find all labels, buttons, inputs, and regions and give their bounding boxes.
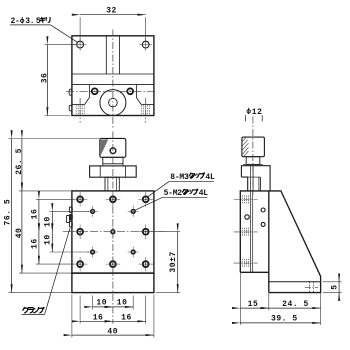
hidden hole in base (side) (305, 282, 318, 292)
svg-text:36: 36 (40, 73, 49, 84)
dimension 40 (bottom) (72, 295, 154, 338)
dimension 10 10 (bottom) (93, 296, 134, 310)
svg-text:5-M2: 5-M2 (164, 189, 183, 198)
hole A (phi3.5 left) (74, 38, 87, 51)
label 8-M3 tap 4L (147, 173, 215, 198)
svg-text:5: 5 (331, 284, 340, 289)
svg-text:15: 15 (248, 300, 259, 309)
dimension 16 upper (left) (30, 199, 74, 231)
M3 tap holes 8x (front) (77, 196, 148, 267)
svg-text:40: 40 (15, 228, 24, 239)
dimension 15 (side) (240, 273, 268, 325)
svg-text:8-M3: 8-M3 (170, 173, 189, 182)
svg-text:16: 16 (30, 209, 39, 220)
centerline vertical main (plan) (112, 30, 114, 128)
svg-text:12: 12 (252, 108, 263, 117)
dimension 24.5 (side) (269, 293, 321, 325)
screw boss (side) (248, 177, 261, 191)
svg-text:30±7: 30±7 (169, 251, 178, 272)
bracket flange (front) (90, 166, 137, 177)
carriage edges (plan) (72, 85, 154, 105)
svg-text:16: 16 (30, 238, 39, 249)
svg-text:40: 40 (107, 328, 118, 337)
screw S1 (plan left) (92, 88, 98, 94)
svg-text:10: 10 (44, 234, 53, 245)
side hole C1 (261, 208, 265, 212)
screw S2 (plan right) (127, 88, 133, 94)
centerline vertical main (front) (112, 132, 114, 324)
svg-text:4L: 4L (205, 173, 215, 182)
label clamp (kurannpu) (22, 228, 71, 314)
stage base (front) (72, 273, 154, 293)
top view internal horizontal edges (72, 74, 154, 85)
side hole C2 (261, 222, 265, 226)
svg-text:26. 5: 26. 5 (15, 148, 24, 175)
svg-text:10: 10 (117, 299, 128, 308)
label 2-phi3.5 drill (10, 17, 77, 42)
label phi12 (245, 108, 262, 122)
svg-text:24. 5: 24. 5 (282, 300, 309, 309)
svg-text:10: 10 (44, 216, 53, 227)
side body outline (240, 191, 320, 293)
svg-text:10: 10 (96, 299, 107, 308)
svg-text:32: 32 (106, 7, 117, 16)
svg-text:4L: 4L (199, 189, 209, 198)
top view central slot (106, 36, 119, 74)
label 5-M2 tap 4L (135, 189, 209, 211)
top view body outline (72, 36, 154, 116)
dimension 5 (side) (323, 276, 342, 298)
bracket flange (side) (241, 166, 270, 192)
tapped hole section row2 (side) (234, 228, 258, 236)
knob neck (front) (103, 157, 123, 164)
dimension 10 upper (left) (44, 211, 89, 231)
micrometer knob (front) (100, 138, 126, 157)
stage body (front) (72, 191, 154, 273)
base plate top (side) (269, 281, 321, 283)
dimension 26.5 (15, 139, 72, 191)
side hole C3 (245, 215, 249, 219)
dimension 76.5 (4, 139, 100, 293)
centerline rail left (plan) (79, 98, 81, 123)
feed screw shaft (front) (105, 177, 119, 191)
svg-text:39. 5: 39. 5 (271, 315, 298, 324)
svg-text:76. 5: 76. 5 (4, 199, 13, 226)
dimension 32 (80, 7, 146, 41)
dovetail joint lines (side) (250, 191, 252, 272)
tapped hole section row1 (side) (234, 195, 258, 203)
dimension 16 lower (left) (30, 232, 74, 264)
M2 hole crosshairs (87, 206, 139, 258)
hole B (phi3.5 right) (139, 38, 152, 51)
dimension 30±7 (right) (151, 232, 181, 293)
clamp bump lower (plan left edge) (69, 105, 72, 111)
dimension 10 lower (left) (44, 232, 89, 252)
centerline rail right (plan) (145, 98, 147, 123)
knob neck (side) (246, 157, 260, 165)
knob knurl (side) (242, 137, 265, 157)
dimension 39.5 (side) (240, 315, 320, 324)
M3 hole crosshairs (73, 192, 153, 271)
dimension 40 (left) (15, 191, 72, 273)
centerline knob axis (side) (252, 117, 254, 196)
knob end circle (plan) (100, 90, 126, 116)
centerline horizontal middle row (front) (63, 231, 166, 233)
clamp bump upper (plan left edge) (69, 89, 72, 95)
rail thread hatch left (plan) (76, 105, 84, 114)
rail thread hatch right (plan) (142, 105, 150, 114)
svg-text:16: 16 (121, 314, 132, 323)
centerline screw axis horizontal (plan) (66, 90, 157, 92)
M2 tap holes 5x (front) (91, 210, 135, 254)
clamp tabs (front left edge) (67, 207, 73, 227)
dimension 36 (40, 45, 76, 116)
tapped hole section row3 (side) (234, 259, 258, 267)
svg-text:16: 16 (93, 314, 104, 323)
dimension 16 16 (bottom) (80, 296, 146, 324)
